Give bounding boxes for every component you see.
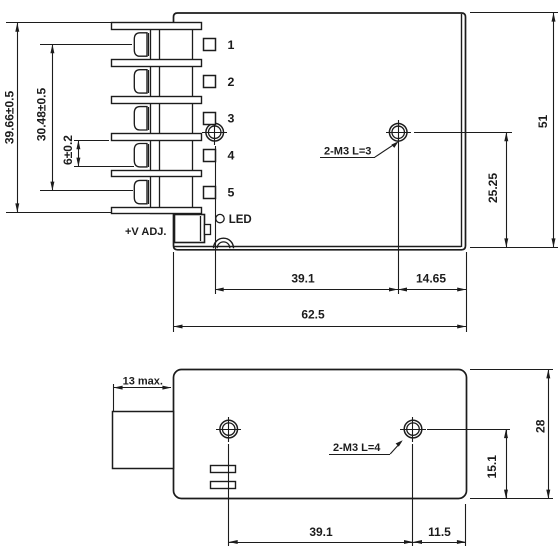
terminal separator bar 4 (112, 134, 202, 141)
terminal block body (151, 24, 193, 214)
extension line hole B to right (414, 132, 512, 134)
dimension line 62.5 (174, 326, 466, 328)
potentiometer inner line (200, 216, 202, 241)
svg-text:3: 3 (228, 112, 235, 126)
terminal separator bar 3 (112, 97, 202, 104)
cover lip bottom edge (174, 246, 461, 248)
case outline (top view) (174, 13, 466, 250)
dimension line 30.48 (52, 44, 54, 191)
dimension line 13 max. (114, 387, 171, 389)
potentiometer tab (205, 225, 211, 235)
extension line screw5 center (40, 190, 133, 192)
terminal screw 2 (134, 70, 147, 93)
extension line hole D to right (427, 429, 510, 431)
terminal pin square 4 (204, 150, 216, 162)
extension line bar4 bottom (74, 140, 109, 142)
terminal pin square 1 (204, 39, 216, 51)
svg-text:1: 1 (228, 38, 235, 52)
terminal screw 1 (134, 33, 147, 56)
extension line hole D down (412, 444, 414, 546)
svg-text:15.1: 15.1 (485, 455, 499, 479)
terminal separator bar 6 (112, 208, 202, 214)
terminal block (side view) (113, 412, 174, 469)
svg-text:LED: LED (229, 214, 252, 226)
LED indicator (216, 214, 224, 222)
terminal pin square 3 (204, 113, 216, 125)
svg-text:5: 5 (228, 186, 235, 200)
svg-text:39.1: 39.1 (291, 272, 315, 286)
svg-text:30.48±0.5: 30.48±0.5 (35, 88, 49, 142)
svg-text:25.25: 25.25 (486, 173, 500, 203)
potentiometer +V ADJ body (175, 215, 205, 243)
extension line case left down (173, 252, 175, 332)
svg-text:13 max.: 13 max. (123, 375, 163, 387)
svg-text:2-M3 L=3: 2-M3 L=3 (324, 146, 371, 158)
dimension line 28 (548, 369, 550, 499)
vent slot 1 (211, 466, 236, 473)
terminal separator bar 2 (112, 60, 202, 67)
svg-text:28: 28 (534, 419, 548, 433)
terminal screw 4 (134, 144, 147, 167)
extension line hole A down (215, 146, 217, 294)
extension line bottom of terminal block (6, 212, 112, 214)
svg-text:51: 51 (536, 115, 550, 129)
side-wall hole arc inner (217, 242, 230, 248)
svg-text:6±0.2: 6±0.2 (61, 135, 75, 165)
dimension line 39.1 / 14.65 (215, 289, 466, 291)
side-wall hole arc outer (214, 238, 234, 248)
terminal pin square 2 (204, 76, 216, 88)
extension line side right down (465, 504, 467, 546)
terminal screw 5 (134, 180, 147, 203)
extension line hole B down (398, 145, 400, 294)
mounting hole C (2-M3 L=4, left) (216, 429, 241, 431)
extension line side top right (470, 369, 553, 371)
mounting hole D (2-M3 L=4, right) (400, 429, 426, 431)
terminal block body inner line (159, 23, 161, 214)
dimension line 39.1 / 11.5 (side view) (229, 542, 466, 544)
dimension line 25.25 (506, 132, 508, 247)
vent slot 2 (211, 482, 236, 489)
terminal separator bar 1 (112, 23, 202, 30)
mounting hole B (2-M3 L=3, right) (386, 132, 411, 134)
mounting hole A (2-M3 L=3, left) (202, 132, 227, 134)
cover lip right edge (461, 14, 463, 247)
extension line side bottom right (470, 498, 553, 500)
extension line screw4 bottom (74, 166, 134, 168)
svg-text:+V ADJ.: +V ADJ. (125, 226, 166, 238)
svg-text:4: 4 (228, 149, 235, 163)
extension line case right down (466, 252, 468, 332)
svg-text:39.66±0.5: 39.66±0.5 (2, 91, 16, 145)
svg-text:14.65: 14.65 (416, 272, 446, 286)
dimension line 6±0.2 (78, 140, 80, 167)
extension line top of terminal block (6, 22, 112, 24)
terminal pin square 5 (204, 187, 216, 199)
extension line case top right (470, 12, 558, 14)
dimension line 15.1 (506, 429, 508, 499)
terminal screw 3 (134, 107, 147, 130)
svg-text:62.5: 62.5 (301, 308, 325, 322)
extension line hole C down (228, 444, 230, 546)
svg-text:2-M3 L=4: 2-M3 L=4 (333, 442, 381, 454)
extension line screw1 center (40, 44, 132, 46)
dimension line 51 (553, 13, 555, 247)
svg-text:39.1: 39.1 (309, 525, 333, 539)
svg-text:11.5: 11.5 (428, 525, 451, 539)
svg-text:2: 2 (228, 75, 235, 89)
dimension line 39.66 (17, 23, 19, 212)
extension line terminal block left (113, 384, 115, 412)
extension line case bottom right (470, 247, 558, 249)
terminal separator bar 5 (112, 171, 202, 177)
case outline (side view) (174, 370, 467, 499)
